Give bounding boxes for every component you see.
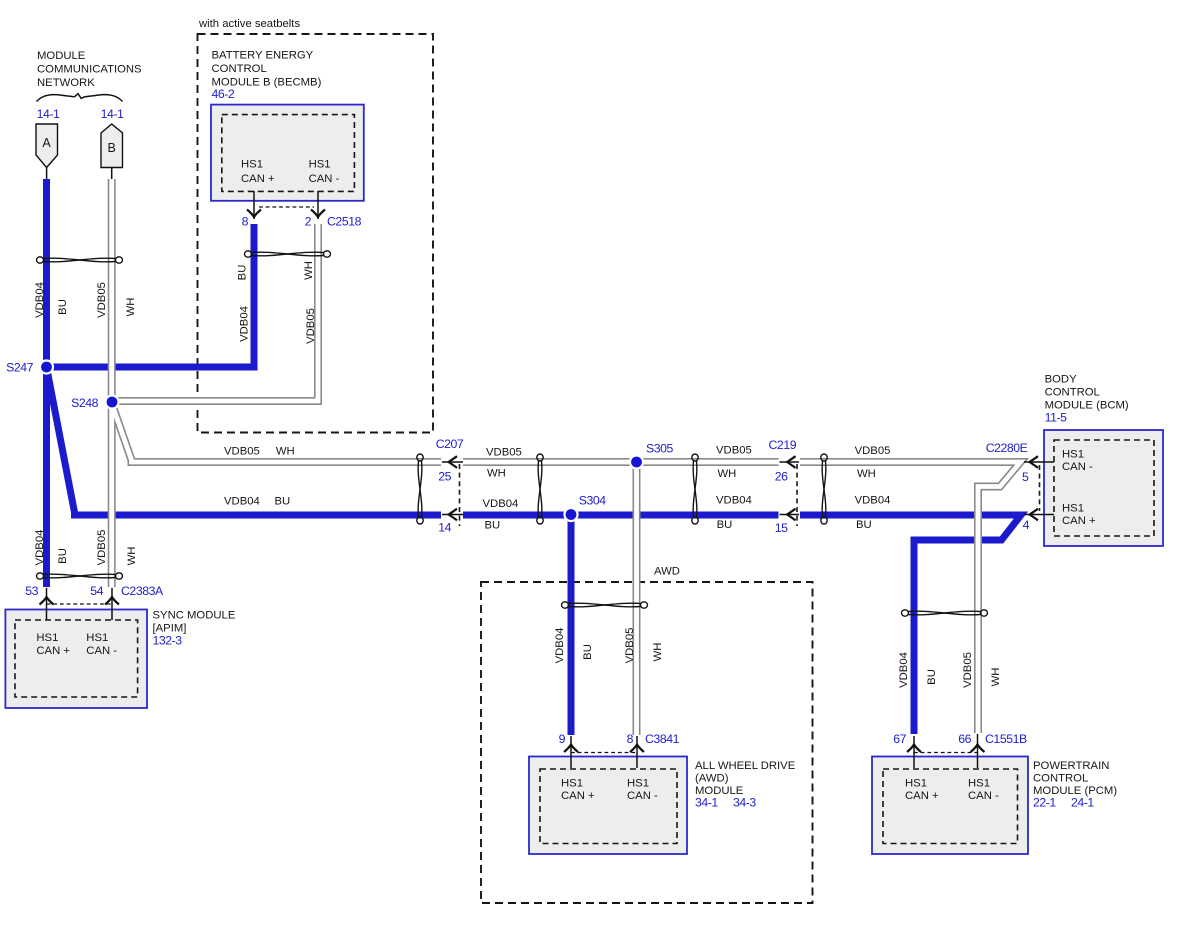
- svg-text:BU: BU: [717, 519, 733, 531]
- svg-text:CAN +: CAN +: [36, 645, 70, 657]
- svg-text:8: 8: [242, 215, 249, 229]
- svg-text:(AWD): (AWD): [695, 772, 729, 784]
- svg-text:CONTROL: CONTROL: [1045, 387, 1100, 399]
- svg-text:VDB04: VDB04: [855, 495, 891, 507]
- svg-text:WH: WH: [303, 261, 315, 280]
- svg-text:CAN -: CAN -: [1062, 461, 1093, 473]
- svg-text:BATTERY ENERGY: BATTERY ENERGY: [212, 50, 314, 62]
- svg-text:WH: WH: [652, 643, 664, 662]
- svg-text:S304: S304: [579, 494, 607, 508]
- svg-text:WH: WH: [125, 298, 137, 317]
- svg-text:VDB05: VDB05: [96, 282, 108, 318]
- svg-text:34-1: 34-1: [695, 795, 718, 809]
- svg-text:NETWORK: NETWORK: [37, 77, 95, 89]
- svg-text:B: B: [108, 141, 116, 155]
- svg-text:C2383A: C2383A: [121, 584, 164, 598]
- svg-text:C207: C207: [436, 437, 464, 451]
- svg-text:VDB04: VDB04: [34, 282, 46, 318]
- svg-text:11-5: 11-5: [1045, 411, 1068, 425]
- svg-text:BU: BU: [582, 644, 594, 660]
- svg-text:HS1: HS1: [1062, 449, 1084, 461]
- svg-text:8: 8: [627, 732, 634, 746]
- svg-text:VDB05: VDB05: [305, 308, 317, 344]
- svg-text:BU: BU: [926, 669, 938, 685]
- svg-text:67: 67: [893, 732, 906, 746]
- svg-text:WH: WH: [276, 446, 295, 458]
- svg-text:132-3: 132-3: [153, 634, 183, 648]
- svg-text:2: 2: [305, 215, 312, 229]
- svg-text:VDB04: VDB04: [239, 306, 251, 342]
- svg-text:BU: BU: [57, 299, 69, 315]
- svg-text:VDB05: VDB05: [486, 447, 522, 459]
- svg-text:HS1: HS1: [241, 159, 263, 171]
- svg-text:CONTROL: CONTROL: [1033, 772, 1088, 784]
- svg-text:WH: WH: [990, 668, 1002, 687]
- svg-text:C219: C219: [769, 438, 797, 452]
- svg-text:WH: WH: [126, 547, 138, 566]
- svg-text:VDB04: VDB04: [483, 498, 519, 510]
- svg-text:46-2: 46-2: [212, 87, 235, 101]
- svg-text:C1551B: C1551B: [985, 732, 1027, 746]
- svg-text:HS1: HS1: [968, 778, 990, 790]
- svg-text:S305: S305: [646, 441, 674, 455]
- svg-text:VDB05: VDB05: [96, 530, 108, 566]
- svg-text:VDB04: VDB04: [224, 496, 260, 508]
- svg-text:A: A: [42, 136, 51, 150]
- svg-text:CAN -: CAN -: [309, 173, 340, 185]
- svg-text:with active seatbelts: with active seatbelts: [198, 18, 300, 30]
- svg-text:66: 66: [958, 732, 971, 746]
- svg-text:VDB05: VDB05: [855, 445, 891, 457]
- svg-text:MODULE: MODULE: [37, 50, 86, 62]
- svg-text:WH: WH: [487, 468, 506, 480]
- svg-text:AWD: AWD: [654, 566, 680, 578]
- svg-text:VDB04: VDB04: [554, 628, 566, 664]
- svg-text:26: 26: [775, 470, 788, 484]
- svg-text:14-1: 14-1: [37, 107, 60, 121]
- svg-text:WH: WH: [857, 468, 876, 480]
- svg-text:C2518: C2518: [327, 215, 362, 229]
- svg-text:BU: BU: [275, 496, 291, 508]
- svg-text:SYNC MODULE: SYNC MODULE: [153, 610, 236, 622]
- svg-text:HS1: HS1: [627, 778, 649, 790]
- svg-text:CAN +: CAN +: [561, 790, 595, 802]
- svg-text:VDB04: VDB04: [34, 530, 46, 566]
- svg-text:BU: BU: [237, 265, 249, 281]
- svg-text:4: 4: [1023, 518, 1030, 532]
- svg-text:C2280E: C2280E: [986, 441, 1028, 455]
- svg-text:24-1: 24-1: [1071, 795, 1094, 809]
- svg-text:VDB05: VDB05: [962, 652, 974, 688]
- svg-text:VDB04: VDB04: [716, 495, 752, 507]
- svg-text:CONTROL: CONTROL: [212, 63, 267, 75]
- svg-text:VDB04: VDB04: [898, 652, 910, 688]
- svg-text:34-3: 34-3: [733, 795, 756, 809]
- svg-text:BU: BU: [856, 519, 872, 531]
- svg-text:S247: S247: [6, 361, 34, 375]
- svg-text:WH: WH: [718, 468, 737, 480]
- svg-text:CAN +: CAN +: [905, 790, 939, 802]
- svg-text:ALL WHEEL DRIVE: ALL WHEEL DRIVE: [695, 760, 796, 772]
- svg-text:HS1: HS1: [36, 632, 58, 644]
- svg-text:COMMUNICATIONS: COMMUNICATIONS: [37, 64, 142, 76]
- svg-text:VDB05: VDB05: [624, 628, 636, 664]
- svg-text:BU: BU: [57, 548, 69, 564]
- svg-text:9: 9: [559, 732, 566, 746]
- svg-text:CAN -: CAN -: [968, 790, 999, 802]
- svg-text:CAN +: CAN +: [241, 173, 275, 185]
- svg-text:14: 14: [438, 521, 451, 535]
- svg-text:CAN -: CAN -: [86, 645, 117, 657]
- svg-text:HS1: HS1: [86, 632, 108, 644]
- svg-text:5: 5: [1022, 470, 1029, 484]
- svg-text:CAN +: CAN +: [1062, 515, 1096, 527]
- svg-text:HS1: HS1: [309, 159, 331, 171]
- svg-text:HS1: HS1: [561, 778, 583, 790]
- svg-text:CAN -: CAN -: [627, 790, 658, 802]
- svg-text:S248: S248: [71, 396, 99, 410]
- svg-text:54: 54: [90, 584, 103, 598]
- svg-text:HS1: HS1: [905, 778, 927, 790]
- svg-text:VDB05: VDB05: [716, 445, 752, 457]
- svg-text:POWERTRAIN: POWERTRAIN: [1033, 760, 1109, 772]
- svg-text:VDB05: VDB05: [224, 446, 260, 458]
- svg-text:25: 25: [438, 470, 451, 484]
- svg-text:53: 53: [25, 584, 38, 598]
- svg-text:BU: BU: [485, 520, 501, 532]
- svg-text:C3841: C3841: [645, 732, 680, 746]
- svg-text:14-1: 14-1: [101, 107, 124, 121]
- svg-text:22-1: 22-1: [1033, 795, 1056, 809]
- svg-text:15: 15: [775, 521, 788, 535]
- svg-text:BODY: BODY: [1045, 374, 1077, 386]
- svg-text:HS1: HS1: [1062, 503, 1084, 515]
